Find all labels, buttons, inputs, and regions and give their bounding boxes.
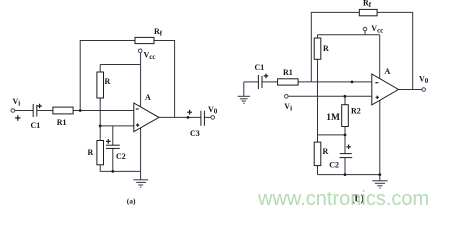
svg-text:C2: C2 [116,152,126,161]
svg-text:R2: R2 [351,107,361,116]
svg-text:R: R [323,147,329,156]
svg-text:R: R [323,44,329,53]
svg-text:V0: V0 [419,75,429,86]
svg-text:Vcc: Vcc [371,24,383,35]
svg-text:Vcc: Vcc [144,51,156,62]
svg-text:C3: C3 [190,129,200,138]
svg-text:R: R [105,77,111,86]
svg-text:Rf: Rf [154,27,163,38]
svg-text:A: A [385,67,391,76]
svg-text:C1: C1 [255,63,265,72]
svg-text:Vi: Vi [13,97,21,108]
svg-text:R1: R1 [283,68,293,77]
svg-text:www.cntronics.com: www.cntronics.com [257,188,429,210]
svg-text:C1: C1 [31,121,41,130]
svg-text:R: R [88,148,94,157]
svg-text:1M: 1M [326,113,340,123]
svg-text:C2: C2 [329,161,339,170]
svg-text:R1: R1 [57,118,67,127]
svg-text:(a): (a) [127,196,136,205]
svg-text:A: A [145,93,151,102]
svg-text:V0: V0 [208,105,218,116]
svg-text:Vi: Vi [284,102,292,113]
